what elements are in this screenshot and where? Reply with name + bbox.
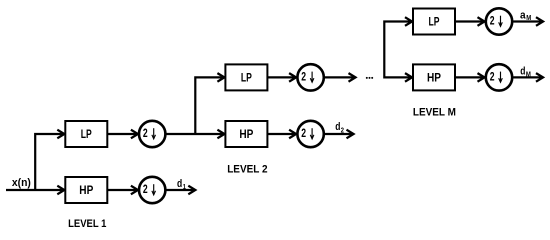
filter HP1 box [65, 177, 107, 203]
filter HP2 box [225, 121, 267, 147]
filter LP1 box [65, 121, 107, 147]
svg-text:M: M [526, 69, 531, 78]
wire DS5 to output aM [513, 20, 542, 22]
svg-text:LP: LP [81, 127, 92, 141]
arrowhead into DS1 [131, 130, 138, 139]
wire DS4 to output d2 [325, 133, 353, 135]
arrowhead into DS2 [131, 186, 138, 195]
ellipsis dots [366, 77, 373, 79]
label d1 [177, 178, 186, 191]
wire HP1 to downsampler DS2 [107, 189, 137, 191]
arrowhead into HP2 [217, 130, 224, 139]
arrowhead into LPM [405, 17, 412, 26]
svg-text:d: d [520, 66, 525, 78]
svg-text:d: d [335, 121, 340, 133]
svg-text:HP: HP [427, 71, 441, 85]
svg-text:M: M [526, 13, 531, 22]
svg-text:HP: HP [239, 127, 253, 141]
svg-text:2: 2 [341, 125, 344, 134]
arrowhead into HPM [405, 73, 412, 82]
downsampler DS4 (2 down) [297, 121, 323, 147]
filter LP2 box [225, 64, 267, 90]
downsampler DS5 (2 down) [486, 8, 512, 34]
svg-text:d: d [177, 178, 182, 190]
node: level M branch junction [384, 22, 411, 78]
svg-text:LEVEL 2: LEVEL 2 [227, 163, 267, 175]
arrowhead output dM [536, 73, 543, 82]
downsampler DS6 (2 down) [486, 64, 512, 90]
svg-text:LEVEL 1: LEVEL 1 [68, 218, 106, 230]
node: input branch junction [35, 134, 63, 190]
wire LP1 to downsampler DS1 [107, 133, 137, 135]
downsampler DS2 (2 down) [139, 177, 165, 203]
downsampler DS1 (2 down) [139, 121, 165, 147]
arrowhead output d1 [188, 186, 195, 195]
arrowhead into DS3 [289, 73, 296, 82]
arrowhead into DS6 [478, 73, 485, 82]
svg-text:x(n): x(n) [12, 177, 31, 189]
svg-text:LEVEL M: LEVEL M [413, 107, 456, 119]
arrowhead into DS4 [289, 130, 296, 139]
arrowhead after DS3 [349, 73, 356, 82]
filter HPM box [413, 64, 455, 90]
wire: input line x(n) [6, 189, 63, 191]
label dM [520, 66, 531, 79]
label d2 [335, 121, 344, 134]
node: level2 branch junction [195, 77, 223, 134]
arrowhead into LP2 [217, 73, 224, 82]
wire DS1 to HP2 [166, 133, 223, 135]
svg-text:LP: LP [241, 71, 252, 85]
label aM [520, 9, 531, 22]
filter LPM box [413, 9, 455, 35]
wire LP2 to DS3 [267, 76, 295, 78]
arrowhead output d2 [347, 130, 354, 139]
wire DS3 onward to dots [325, 76, 355, 78]
arrowhead into LP1 [57, 130, 64, 139]
arrowhead output aM [536, 17, 543, 26]
wire DS6 to output dM [513, 76, 542, 78]
arrowhead into DS5 [478, 17, 485, 26]
svg-text:1: 1 [183, 182, 186, 191]
downsampler DS3 (2 down) [297, 64, 323, 90]
wire HPM to DS6 [455, 76, 484, 78]
wire HP2 to DS4 [267, 133, 295, 135]
wire DS2 to output d1 [166, 189, 194, 191]
arrowhead into HP1 [57, 186, 64, 195]
svg-text:HP: HP [79, 183, 93, 197]
svg-text:LP: LP [429, 15, 440, 29]
wire LPM to DS5 [455, 20, 484, 22]
